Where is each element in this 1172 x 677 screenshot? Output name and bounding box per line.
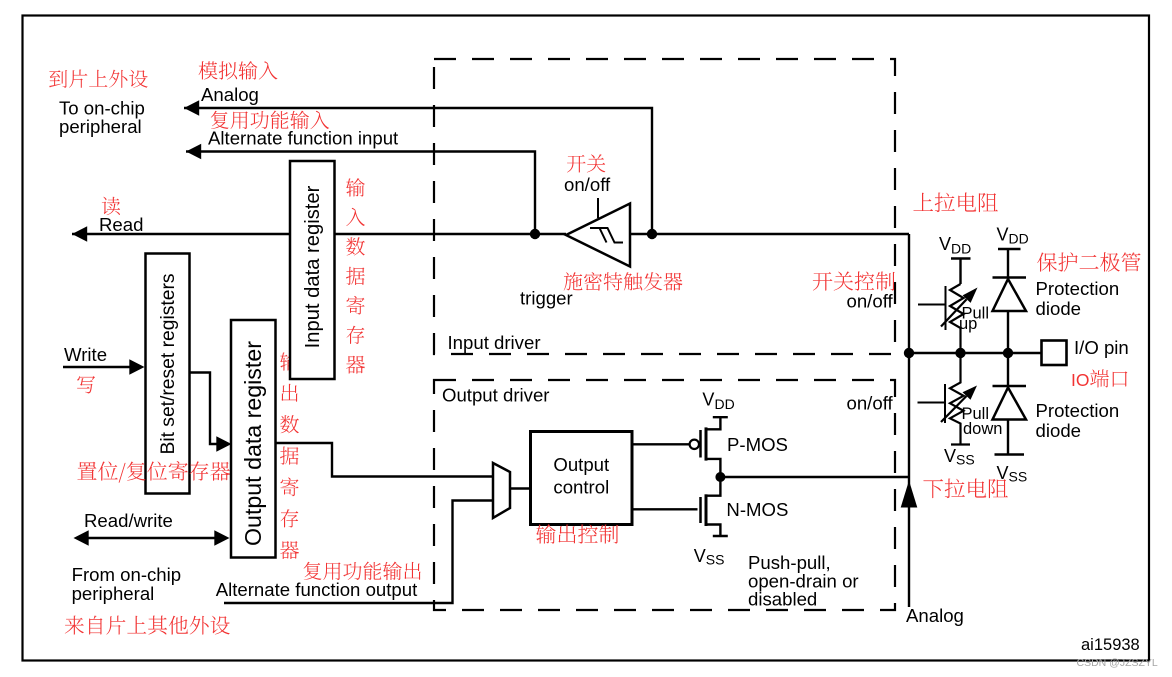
wire Schmitt input from right bbox=[630, 233, 909, 235]
protection diode top bbox=[993, 279, 1027, 311]
arrowhead Write bbox=[129, 359, 144, 375]
svg-text:SS: SS bbox=[956, 452, 975, 468]
schmitt on/off tick bbox=[597, 198, 599, 218]
label 置位/复位寄存器 bbox=[77, 461, 230, 483]
svg-text:diode: diode bbox=[1036, 420, 1082, 441]
NMOS channel bar bbox=[705, 494, 708, 526]
resistor pull-up zigzag bbox=[950, 284, 964, 353]
label 下拉电阻 bbox=[923, 479, 1008, 499]
register Bit set/reset bbox=[146, 254, 190, 494]
svg-text:Alternate function output: Alternate function output bbox=[216, 579, 418, 600]
wire Read/write line bbox=[81, 537, 222, 539]
svg-text:on/off: on/off bbox=[847, 393, 894, 414]
svg-text:trigger: trigger bbox=[520, 288, 573, 309]
arrowhead Analog up bbox=[901, 481, 918, 508]
wire Bit-set to ODR bbox=[190, 373, 220, 445]
svg-text:V: V bbox=[944, 446, 956, 466]
register Output data bbox=[231, 320, 276, 558]
diode VDD rail bbox=[998, 249, 1021, 278]
wire NMOS source to VSS bbox=[706, 525, 728, 537]
svg-text:Output: Output bbox=[553, 454, 610, 475]
junction dot MOS output bbox=[715, 472, 725, 482]
svg-text:DD: DD bbox=[951, 240, 971, 256]
Output driver dashed box bbox=[434, 380, 895, 610]
label 开关控制 bbox=[813, 271, 895, 290]
protection diode top cathode bbox=[993, 276, 1027, 278]
arrowhead Read/write left bbox=[74, 530, 89, 546]
resistor pull-down zigzag bbox=[950, 353, 970, 445]
wire Alternate function input line bbox=[186, 152, 535, 235]
svg-text:DD: DD bbox=[714, 396, 734, 412]
svg-text:IO: IO bbox=[1071, 370, 1089, 390]
wire PMOS drain bbox=[706, 459, 720, 477]
svg-text:N-MOS: N-MOS bbox=[726, 499, 788, 520]
svg-text:control: control bbox=[553, 477, 609, 498]
wire NMOS gate bbox=[632, 508, 698, 510]
svg-text:Protection: Protection bbox=[1036, 278, 1120, 299]
junction dot right vertical bbox=[904, 348, 914, 358]
mux trapezoid bbox=[493, 463, 510, 518]
label 复用功能输出 bbox=[304, 562, 421, 581]
svg-text:Read: Read bbox=[99, 214, 143, 235]
wire pull-down on/off control bbox=[918, 402, 946, 404]
pull-down gate bar bbox=[944, 384, 946, 423]
wire PMOS gate bbox=[632, 443, 690, 445]
svg-text:peripheral: peripheral bbox=[72, 583, 155, 604]
label 复用功能输入 bbox=[211, 111, 329, 130]
svg-text:Write: Write bbox=[64, 344, 107, 365]
svg-text:V: V bbox=[997, 225, 1009, 245]
register Input data bbox=[290, 161, 335, 379]
label 读 bbox=[102, 197, 120, 215]
wire NMOS drain bbox=[706, 477, 720, 496]
svg-text:From on-chip: From on-chip bbox=[72, 564, 182, 585]
junction dot diode column bbox=[1003, 348, 1013, 358]
svg-text:Input driver: Input driver bbox=[448, 332, 541, 353]
label 输出控制 bbox=[536, 524, 618, 544]
svg-text:Output driver: Output driver bbox=[442, 385, 549, 406]
arrowhead into ODR bbox=[216, 436, 231, 452]
NMOS gate bar bbox=[699, 497, 702, 523]
svg-text:DD: DD bbox=[1009, 231, 1029, 247]
label 保护二极管 bbox=[1037, 252, 1140, 271]
wire Read line bbox=[72, 233, 566, 235]
svg-text:V: V bbox=[997, 463, 1009, 483]
pull-up arrow bbox=[941, 299, 967, 326]
svg-text:Protection: Protection bbox=[1036, 400, 1120, 421]
wire PMOS source to VDD bbox=[706, 417, 728, 429]
svg-text:disabled: disabled bbox=[748, 589, 817, 610]
svg-text:Input data register: Input data register bbox=[302, 185, 324, 348]
arrowhead Analog input bbox=[184, 100, 199, 116]
wire mux to Output control bbox=[510, 487, 531, 489]
svg-text:Output data register: Output data register bbox=[240, 341, 266, 546]
PMOS gate bar bbox=[699, 430, 702, 458]
svg-text:P-MOS: P-MOS bbox=[727, 434, 788, 455]
label 输入数据寄存器 vertical bbox=[346, 178, 365, 197]
wire right vertical Analog bbox=[908, 234, 910, 607]
svg-text:V: V bbox=[694, 546, 706, 566]
schmitt trigger triangle bbox=[566, 204, 630, 267]
label 模拟输入 bbox=[199, 61, 278, 80]
svg-text:Analog: Analog bbox=[906, 605, 964, 626]
PMOS gate bubble bbox=[690, 440, 699, 449]
junction dot pull column bbox=[955, 348, 965, 358]
pull-up gate bar bbox=[945, 286, 947, 330]
svg-text:ai15938: ai15938 bbox=[1081, 636, 1140, 654]
pull-up VDD rail bbox=[951, 259, 971, 285]
label 来自片上其他外设 bbox=[65, 616, 230, 635]
svg-text:peripheral: peripheral bbox=[59, 116, 142, 137]
wire Alternate function output line bbox=[224, 501, 493, 604]
wire Write line bbox=[63, 366, 133, 368]
svg-text:V: V bbox=[702, 390, 714, 410]
svg-text:SS: SS bbox=[706, 552, 725, 568]
arrowhead Read/write right bbox=[214, 530, 229, 546]
svg-text:up: up bbox=[959, 315, 977, 333]
svg-text:V: V bbox=[939, 234, 951, 254]
label 开关 bbox=[567, 154, 605, 172]
junction dot right of schmitt bbox=[647, 229, 657, 239]
svg-text:SS: SS bbox=[1009, 469, 1028, 485]
svg-text:diode: diode bbox=[1036, 298, 1082, 319]
svg-text:on/off: on/off bbox=[564, 174, 611, 195]
wire diode bottom to VSS bbox=[995, 420, 1025, 455]
svg-text:I/O pin: I/O pin bbox=[1074, 337, 1129, 358]
label 施密特触发器 bbox=[564, 272, 683, 291]
wire pull-up on/off control bbox=[918, 304, 946, 306]
schmitt hysteresis symbol bbox=[590, 228, 623, 243]
label 写 bbox=[77, 376, 95, 394]
wire IO pin line bbox=[909, 352, 1042, 354]
label 上拉电阻 bbox=[913, 193, 998, 213]
label 到片上外设 bbox=[49, 70, 148, 88]
svg-text:Analog: Analog bbox=[201, 84, 259, 105]
junction dot left of schmitt bbox=[530, 229, 540, 239]
arrowhead Read bbox=[72, 226, 87, 242]
svg-text:Bit set/reset registers: Bit set/reset registers bbox=[158, 273, 179, 454]
I/O pin square bbox=[1042, 341, 1067, 366]
wire MOS output bbox=[720, 476, 909, 478]
output control box bbox=[531, 432, 633, 525]
protection diode bottom bbox=[993, 388, 1027, 420]
wire ODR to mux bbox=[276, 443, 494, 477]
PMOS channel bar bbox=[705, 427, 708, 460]
Input driver dashed box bbox=[434, 59, 895, 354]
wire Analog input line bbox=[184, 108, 652, 234]
svg-text:CSDN @JZSZYL: CSDN @JZSZYL bbox=[1077, 657, 1158, 669]
label 输出数据寄存器 vertical bbox=[280, 352, 299, 371]
wire diode top to junction bbox=[1007, 311, 1009, 386]
svg-text:Alternate function input: Alternate function input bbox=[208, 128, 399, 149]
arrowhead Alternate function input bbox=[186, 144, 201, 160]
protection diode bottom cathode bbox=[993, 385, 1027, 387]
svg-text:on/off: on/off bbox=[847, 291, 894, 312]
svg-text:Read/write: Read/write bbox=[84, 510, 173, 531]
pull-down arrow bbox=[941, 396, 967, 422]
svg-text:down: down bbox=[963, 420, 1002, 438]
